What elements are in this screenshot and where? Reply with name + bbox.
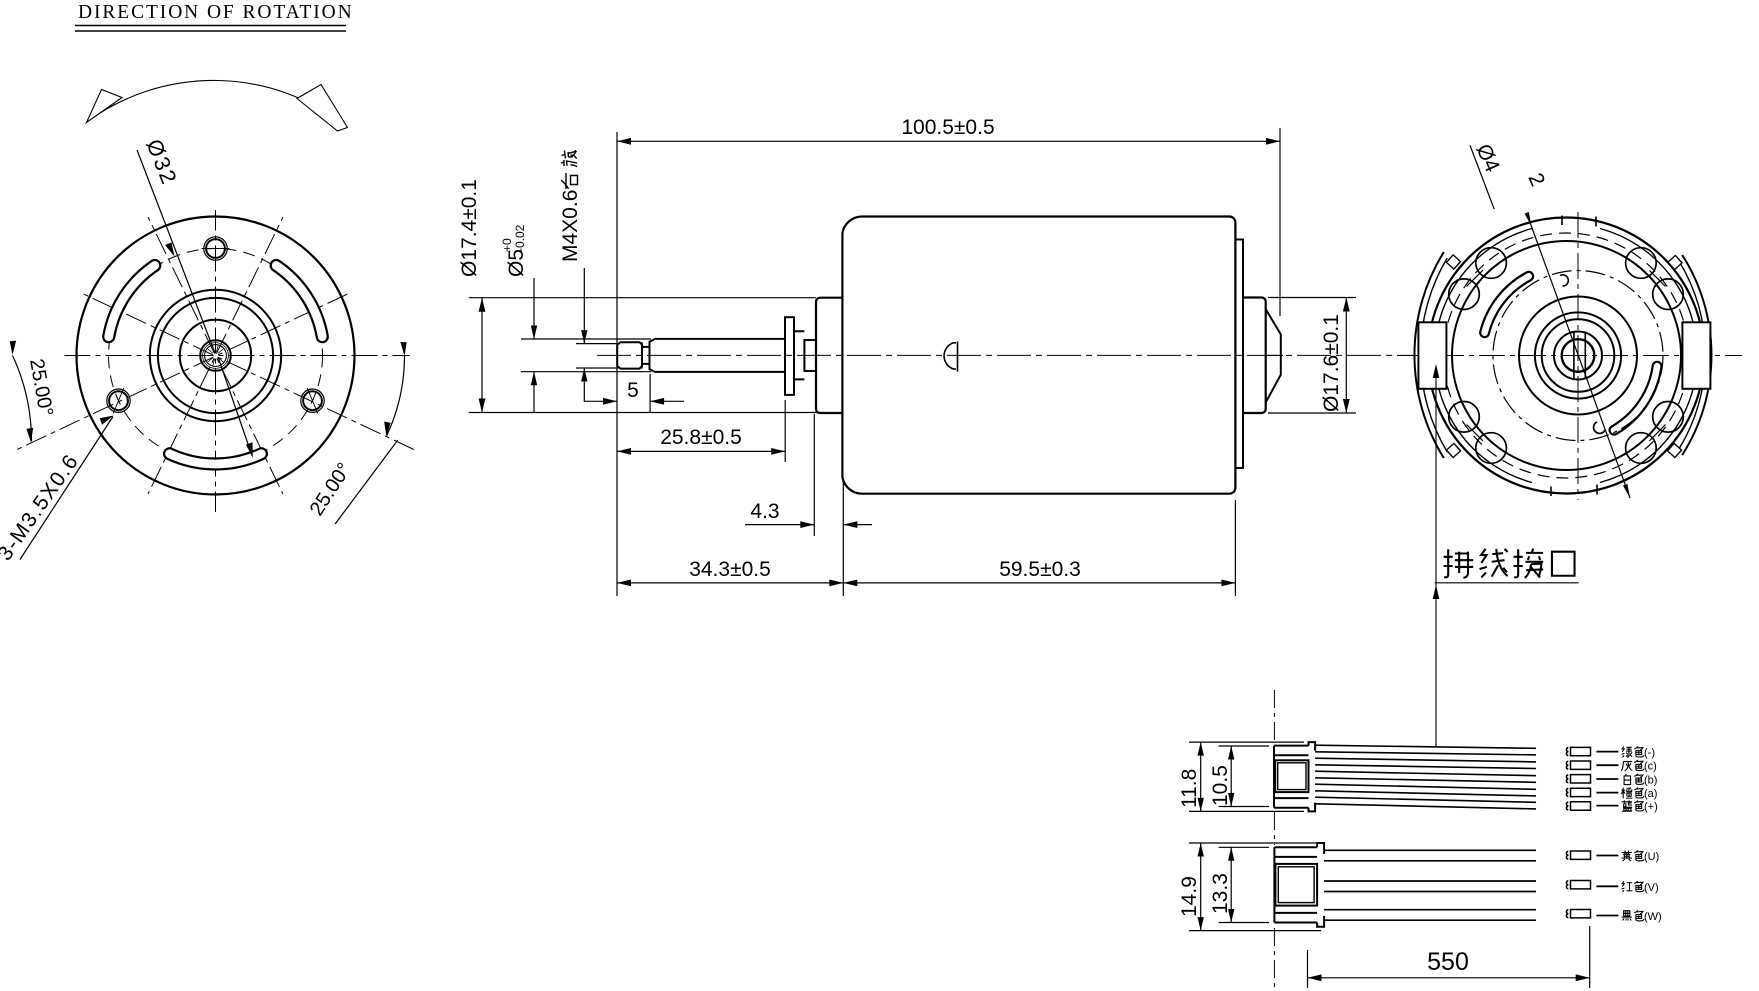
bolt circle dashed rear <box>1444 233 1689 478</box>
svg-text:5: 5 <box>627 379 639 402</box>
shaft ring inner <box>205 345 227 367</box>
label 34.3 <box>689 558 771 581</box>
svg-text:(W): (W) <box>1644 911 1662 923</box>
svg-text:(+): (+) <box>1644 801 1658 813</box>
svg-text:34.3±0.5: 34.3±0.5 <box>689 558 771 581</box>
dim line 100.5 <box>617 140 1280 142</box>
connector B latch top <box>1317 843 1324 854</box>
mounting hole bottom-left M3.5 <box>109 391 128 410</box>
bolt circle dashed <box>109 249 323 463</box>
boss circle R36 <box>180 320 251 391</box>
arrow 3-M3.5X0.6 at hole <box>100 416 114 425</box>
arrow dia32 <box>165 242 175 256</box>
label dia17.4 <box>458 179 481 277</box>
dim 59.5 ext right <box>1234 500 1236 596</box>
label dia5 <box>500 224 528 277</box>
dim 25.8 ext right <box>784 400 786 462</box>
svg-text:13.3: 13.3 <box>1209 873 1232 914</box>
centerline diagonal -64deg <box>148 217 283 494</box>
radial ticks between holes <box>1467 270 1666 441</box>
center rings rear <box>1519 297 1637 415</box>
svg-text:100.5±0.5: 100.5±0.5 <box>901 116 994 139</box>
label 59.5 <box>999 558 1081 581</box>
rear bearing boss <box>1243 298 1266 414</box>
leader line dia32 <box>137 150 215 353</box>
label 25.00 left <box>25 357 57 418</box>
inner wall arc left <box>1435 229 1532 483</box>
shaft ring mid <box>203 343 229 369</box>
left connector box <box>1418 322 1446 389</box>
svg-text:10.5: 10.5 <box>1209 765 1232 806</box>
rear shaft cone <box>1266 309 1281 402</box>
connector B dim ext lines <box>1189 843 1321 931</box>
vent slot top-left <box>109 266 155 337</box>
rear cone center tick <box>1266 354 1283 356</box>
centerline connectors vertical <box>1273 690 1275 990</box>
wire labels A <box>1621 746 1657 813</box>
centerline vertical (rear view) <box>1577 212 1579 500</box>
svg-text:DIRECTION OF ROTATION: DIRECTION OF ROTATION <box>78 2 354 23</box>
arrow 100.5 right <box>1266 138 1280 145</box>
left bulge arcs <box>1414 252 1443 458</box>
dim 14.9 <box>1200 843 1202 931</box>
rotation arrow left (hollow) <box>87 90 123 123</box>
label dia32 <box>141 136 182 189</box>
centerline horizontal (rear view) <box>1397 355 1742 357</box>
front bearing boss <box>816 298 842 413</box>
arrow left-arc top <box>10 341 16 355</box>
label 25.00 right <box>306 459 356 520</box>
leader 3-M3.5X0.6 <box>20 417 113 560</box>
label leads A <box>1596 752 1618 806</box>
crimp tab bottom-right <box>1667 443 1681 457</box>
svg-text:Ø5: Ø5 <box>505 249 528 277</box>
arrow bottom slot <box>246 442 253 458</box>
shelf 25.00 right <box>335 440 398 524</box>
connector A housing <box>1274 746 1309 808</box>
dim 100.5 ext left <box>616 132 618 596</box>
seam ticks bottom <box>1551 485 1597 497</box>
arrow right-arc bottom <box>384 422 391 437</box>
dim line 25.8 <box>617 450 785 452</box>
wire ends A (curl+ferrule) x5 <box>1566 747 1590 810</box>
vent slot bottom <box>170 454 262 464</box>
label leads B <box>1596 856 1618 916</box>
right bulge arcs <box>1682 255 1711 455</box>
arrow 17.4 bottom <box>479 399 486 413</box>
svg-text:Ø17.6±0.1: Ø17.6±0.1 <box>1320 314 1343 412</box>
shaft <box>650 339 786 372</box>
svg-text:(b): (b) <box>1644 774 1657 786</box>
connector B socket <box>1275 864 1317 906</box>
connector A latch bottom <box>1309 803 1316 812</box>
connector A socket <box>1275 760 1308 792</box>
centerline diagonal 25deg left-down <box>15 293 350 451</box>
dia4 label shelf <box>1470 145 1494 209</box>
dashdot circle R85 <box>1493 271 1663 441</box>
centerline vertical (left view) <box>215 210 217 512</box>
rear slot lower-right <box>1614 366 1657 430</box>
leader arrow top <box>1433 364 1440 378</box>
title DIRECTION OF ROTATION <box>78 2 354 23</box>
shaft neck <box>642 347 650 364</box>
rear outer circle <box>1428 218 1704 494</box>
svg-text:(-): (-) <box>1644 747 1655 759</box>
label dia4 <box>1471 141 1504 176</box>
svg-text:(a): (a) <box>1644 788 1657 800</box>
label 100.5 <box>901 116 994 139</box>
dim 17.6 ext lines <box>1268 298 1356 414</box>
crimp tab top-left <box>1446 255 1460 269</box>
centerline horizontal (left view) <box>63 355 410 357</box>
svg-text:(c): (c) <box>1644 761 1657 773</box>
svg-text:550: 550 <box>1427 948 1469 976</box>
wires 5x <box>1315 745 1536 809</box>
connector A latch top <box>1309 742 1316 751</box>
dim 550 ext lines <box>1308 926 1590 988</box>
crimp tab bottom-left <box>1446 443 1460 457</box>
shaft ring outer <box>200 340 231 371</box>
connector B housing <box>1274 847 1317 922</box>
glyphs paixianjiekou <box>1444 549 1575 578</box>
arrow rear diag top <box>1525 212 1532 226</box>
svg-text:(U): (U) <box>1644 851 1659 863</box>
rear slot upper-left <box>1485 276 1529 332</box>
svg-text:排线接口: 排线接口 <box>1443 548 1579 586</box>
arrow left-arc bottom <box>27 428 34 443</box>
dim 11.8 <box>1200 742 1202 811</box>
dim 17.4 ext bottom <box>469 412 821 414</box>
wires 3x thick <box>1324 850 1536 920</box>
svg-text:+0: +0 <box>500 238 514 252</box>
thread M4 <box>617 342 642 368</box>
label 25.8 <box>660 426 742 449</box>
svg-text:59.5±0.3: 59.5±0.3 <box>999 558 1081 581</box>
rear plate circle <box>1452 241 1681 470</box>
dim arc 25.00 right <box>387 356 405 436</box>
centerline diagonal 25deg right-down <box>81 293 416 451</box>
label 550 <box>1427 948 1469 976</box>
hub step2 <box>804 340 816 371</box>
svg-text:(V): (V) <box>1644 882 1659 894</box>
svg-text:25.8±0.5: 25.8±0.5 <box>660 426 742 449</box>
label paixianjiekou underline <box>1435 582 1579 584</box>
rotation arrow right (hollow) <box>297 85 348 132</box>
label dia17.6 <box>1320 314 1343 412</box>
mounting hole top M3.5 <box>206 239 225 258</box>
svg-text:11.8: 11.8 <box>1178 769 1201 808</box>
wire labels B <box>1622 850 1662 923</box>
dim arc 25.00 left <box>13 356 32 442</box>
svg-text:-0.02: -0.02 <box>513 224 527 252</box>
dim 10.5 <box>1230 746 1232 807</box>
arrow right-arc top <box>400 342 406 356</box>
arrow rear diag bottom <box>1623 484 1630 498</box>
label 3-M3.5X0.6 <box>0 450 84 565</box>
leader line bottom slot <box>218 357 252 456</box>
dim M4 ext lines <box>576 344 618 368</box>
dim line 34.3 <box>617 582 843 584</box>
dim 4.3 ext lines <box>814 414 843 596</box>
dim dia5 ext lines <box>521 339 651 372</box>
title underline double <box>75 26 346 32</box>
svg-text:Ø17.4±0.1: Ø17.4±0.1 <box>458 179 481 277</box>
D-hole on body <box>944 342 957 372</box>
glyph xuan (rotate) <box>561 150 577 166</box>
dim line 550 <box>1308 977 1590 979</box>
rotation direction arc <box>88 80 346 126</box>
svg-text:14.9: 14.9 <box>1178 876 1201 917</box>
dim 5 ext right <box>649 374 651 412</box>
label 5 <box>627 379 639 402</box>
connector A dim ext lines <box>1189 742 1304 811</box>
svg-text:M4X0.6: M4X0.6 <box>559 190 582 262</box>
inner wall arc right <box>1600 229 1697 483</box>
arrow 17.4 top <box>479 298 486 312</box>
hub step1 <box>794 331 804 379</box>
dim 17.4 ext top <box>469 297 816 299</box>
shaft slot chords <box>1574 332 1585 379</box>
flange circle R66 <box>150 290 281 421</box>
dim M4 stems+arrows <box>583 268 585 402</box>
thread end line <box>641 342 643 368</box>
label 4.3 <box>750 500 779 523</box>
dim line 4.3 <box>745 524 872 526</box>
dim dia5 stems+arrows <box>533 278 535 412</box>
rear rim strip <box>1235 240 1243 469</box>
dim line 17.4 <box>481 298 483 413</box>
rear slot end oval <box>1594 422 1605 433</box>
wire ends B x3 <box>1566 851 1590 918</box>
diagonal dim line rear <box>1530 221 1631 498</box>
arrow 100.5 left <box>617 138 631 145</box>
motor outer circle <box>77 217 355 495</box>
leader arrow mid <box>1433 585 1440 599</box>
centerline shaft axis <box>597 354 1415 356</box>
dim line 59.5 <box>843 582 1235 584</box>
hole center ticks <box>113 249 318 414</box>
connector B latch bottom <box>1317 916 1324 927</box>
crimp tab top-right <box>1668 255 1682 269</box>
motor body <box>842 217 1235 494</box>
seam ticks top <box>1562 216 1596 227</box>
glyph you (right) <box>561 173 578 189</box>
dim 100.5 ext right <box>1279 128 1281 316</box>
mounting hole bottom-right M3.5 <box>303 391 322 410</box>
dim 13.3 <box>1230 847 1232 922</box>
label 2 <box>1523 170 1549 190</box>
svg-text:4.3: 4.3 <box>750 500 779 523</box>
dim line 5 with outside arrows <box>584 400 684 402</box>
dim line 17.6 <box>1345 298 1347 414</box>
shaft washer <box>785 317 794 395</box>
vent slot top-right <box>276 266 322 337</box>
shaft knurl cross <box>208 346 224 366</box>
centerline diagonal +64deg <box>148 217 283 494</box>
hook notch top <box>1560 275 1568 286</box>
flange circle R58 <box>158 298 273 413</box>
rear holes x8 <box>1476 248 1507 279</box>
label M4X0.6 youxuan <box>559 190 582 262</box>
leader paixian vertical <box>1435 368 1437 747</box>
right connector box <box>1682 322 1710 389</box>
